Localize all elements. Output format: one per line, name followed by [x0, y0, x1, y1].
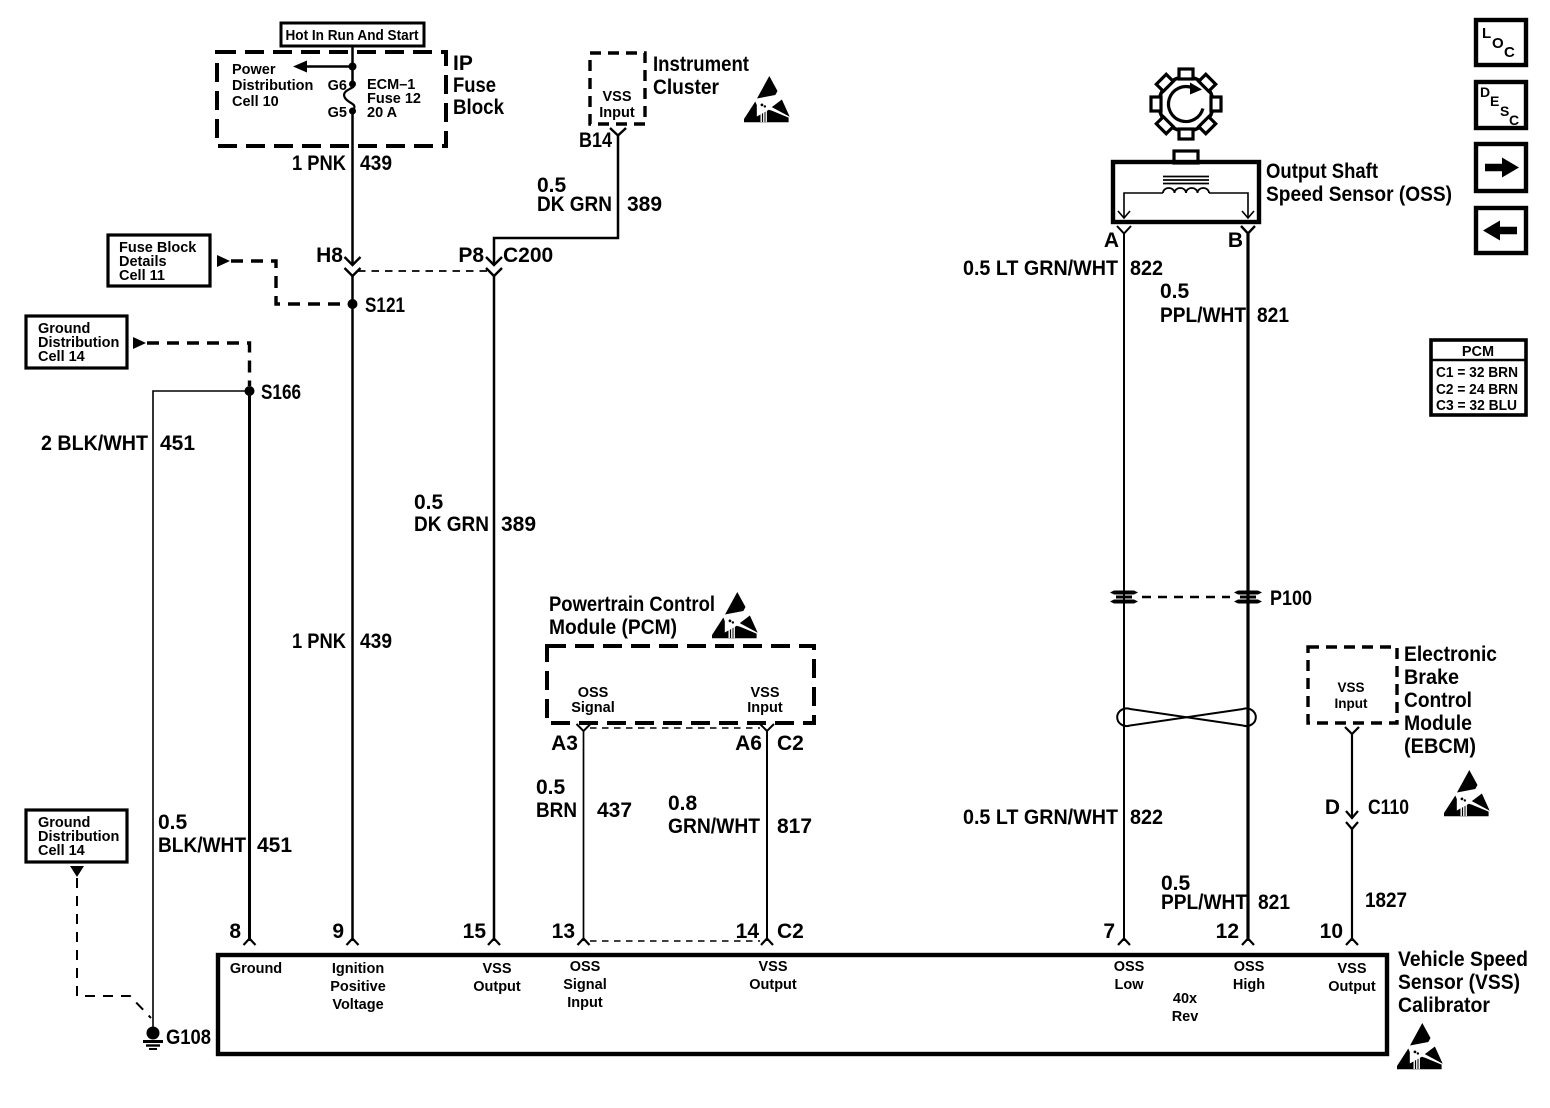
svg-text:439: 439	[360, 152, 392, 175]
ESD symbol EBCM	[1444, 770, 1490, 816]
wire: arrow to power distribution	[293, 61, 353, 73]
wire 0.5 BLK/WHT 451 to pin 8	[248, 391, 251, 941]
svg-text:15: 15	[463, 920, 487, 943]
svg-text:Module: Module	[1404, 712, 1472, 735]
svg-text:0.5: 0.5	[414, 491, 444, 514]
label 0.5 DK GRN 389 upper	[537, 174, 662, 216]
svg-text:Input: Input	[747, 700, 783, 716]
svg-text:A: A	[1104, 229, 1119, 252]
svg-text:Power: Power	[232, 62, 276, 78]
svg-text:C200: C200	[503, 244, 553, 267]
svg-text:H8: H8	[316, 244, 343, 267]
svg-text:817: 817	[777, 815, 812, 838]
wire 0.5 LT GRN/WHT 822	[1123, 234, 1125, 942]
svg-text:Distribution: Distribution	[232, 78, 313, 94]
svg-text:P100: P100	[1270, 587, 1312, 610]
dashed P100 line	[1142, 596, 1230, 599]
label 2 BLK/WHT 451	[41, 432, 195, 455]
svg-text:PPL/WHT: PPL/WHT	[1160, 304, 1246, 327]
label 0.5 BRN 437	[536, 776, 632, 822]
svg-text:VSS: VSS	[1337, 680, 1364, 695]
svg-text:C2 = 24 BRN: C2 = 24 BRN	[1436, 382, 1518, 398]
svg-text:G108: G108	[166, 1026, 211, 1049]
svg-text:821: 821	[1257, 304, 1289, 327]
pin 14 C2	[736, 920, 804, 945]
svg-text:Fuse: Fuse	[453, 74, 496, 97]
label LT GRN/WHT 822 lower	[963, 806, 1163, 829]
fork below EBCM	[1345, 727, 1359, 734]
svg-text:13: 13	[552, 920, 575, 943]
label 0.8 GRN/WHT 817	[668, 792, 812, 838]
Vehicle Speed Sensor label	[1398, 948, 1528, 1017]
svg-text:OSS: OSS	[578, 685, 609, 701]
svg-text:E: E	[1490, 93, 1499, 109]
svg-text:Speed Sensor (OSS): Speed Sensor (OSS)	[1266, 183, 1452, 206]
label PPL/WHT 821 upper	[1160, 280, 1289, 327]
svg-text:C3 = 32 BLU: C3 = 32 BLU	[1436, 398, 1517, 414]
svg-text:822: 822	[1130, 806, 1163, 829]
svg-text:439: 439	[360, 630, 392, 653]
svg-text:12: 12	[1216, 920, 1239, 943]
svg-text:O: O	[1492, 35, 1504, 52]
dashed path to S121	[231, 261, 345, 304]
wire 0.5 PPL/WHT 821	[1246, 234, 1249, 942]
svg-text:C2: C2	[777, 732, 804, 755]
svg-text:VSS: VSS	[1337, 961, 1366, 977]
svg-text:(EBCM): (EBCM)	[1404, 735, 1476, 758]
EBCM label	[1404, 643, 1497, 758]
svg-text:OSS: OSS	[1234, 959, 1265, 975]
svg-text:VSS: VSS	[758, 959, 787, 975]
pin 12	[1216, 920, 1254, 945]
svg-text:DK GRN: DK GRN	[414, 513, 489, 536]
svg-text:Electronic: Electronic	[1404, 643, 1497, 666]
label PPL/WHT 821 lower	[1161, 872, 1290, 914]
EBCM dashed box	[1308, 647, 1397, 723]
svg-text:7: 7	[1103, 920, 1115, 943]
svg-text:OSS: OSS	[570, 959, 601, 975]
svg-text:Rev: Rev	[1172, 1009, 1199, 1025]
wire 1827	[1351, 829, 1353, 941]
ESD symbol PCM	[712, 592, 758, 638]
PCM dashed box	[547, 646, 814, 723]
svg-text:Cell 14: Cell 14	[38, 843, 85, 859]
svg-text:1 PNK: 1 PNK	[292, 152, 346, 175]
splice S121	[348, 294, 406, 317]
svg-text:A3: A3	[551, 732, 578, 755]
label 0.5 BLK/WHT 451	[158, 811, 292, 857]
pin 7	[1103, 920, 1130, 945]
svg-text:Calibrator: Calibrator	[1398, 994, 1490, 1017]
svg-text:Signal: Signal	[571, 700, 615, 716]
Hot In Run And Start label box	[281, 23, 424, 46]
svg-text:Vehicle Speed: Vehicle Speed	[1398, 948, 1528, 971]
back arrow button	[1476, 208, 1526, 253]
svg-text:L: L	[1482, 25, 1491, 42]
arrow from fuse details	[217, 255, 230, 267]
svg-text:C: C	[1504, 44, 1515, 61]
svg-text:G5: G5	[328, 105, 347, 121]
svg-text:0.5: 0.5	[158, 811, 188, 834]
svg-text:Powertrain Control: Powertrain Control	[549, 593, 715, 616]
svg-text:Cell 10: Cell 10	[232, 94, 279, 110]
DESC button	[1476, 82, 1526, 128]
connector B14 fork	[579, 128, 626, 152]
gear icon	[1151, 69, 1221, 139]
wire 0.5 DK GRN 389 from cluster	[494, 136, 618, 266]
svg-text:Cell 14: Cell 14	[38, 349, 85, 365]
svg-text:Module (PCM): Module (PCM)	[549, 616, 677, 639]
fuse ECM-1 element	[344, 84, 354, 111]
svg-text:9: 9	[332, 920, 344, 943]
IP Fuse Block label	[453, 52, 504, 119]
label 1 PNK 439 lower	[292, 630, 392, 653]
svg-text:Ignition: Ignition	[332, 961, 384, 977]
Instrument Cluster label	[653, 53, 749, 99]
twisted pair symbol	[1117, 708, 1256, 726]
svg-text:389: 389	[627, 193, 662, 216]
ground G108	[143, 1026, 211, 1049]
svg-text:8: 8	[229, 920, 241, 943]
wire 0.5 BRN 437	[583, 731, 585, 941]
IP Fuse Block dashed box	[217, 52, 446, 146]
svg-text:389: 389	[501, 513, 536, 536]
thin dashed connector line above calibrator	[590, 940, 760, 942]
pin 8	[229, 920, 255, 945]
LOC button	[1476, 20, 1526, 65]
svg-text:20 A: 20 A	[367, 105, 398, 121]
svg-text:2 BLK/WHT: 2 BLK/WHT	[41, 432, 148, 455]
svg-text:VSS: VSS	[750, 685, 779, 701]
pin 9	[332, 920, 358, 945]
fuse G6 terminal	[349, 81, 356, 88]
svg-text:Signal: Signal	[563, 977, 607, 993]
svg-text:G6: G6	[328, 78, 347, 94]
svg-text:822: 822	[1130, 257, 1163, 280]
svg-text:Voltage: Voltage	[332, 997, 383, 1013]
Output Shaft Speed Sensor label	[1266, 160, 1452, 206]
svg-text:S: S	[1500, 103, 1509, 119]
svg-text:BRN: BRN	[536, 799, 577, 822]
svg-text:0.5 LT GRN/WHT: 0.5 LT GRN/WHT	[963, 257, 1118, 280]
svg-text:Output: Output	[749, 977, 797, 993]
svg-text:VSS: VSS	[482, 961, 511, 977]
svg-text:437: 437	[597, 799, 632, 822]
arrow from ground distribution	[133, 337, 146, 349]
pin 15	[463, 920, 500, 945]
OSS sensor box	[1113, 151, 1259, 222]
fuse G5 terminal	[349, 108, 356, 115]
svg-text:1827: 1827	[1365, 889, 1407, 912]
svg-text:Block: Block	[453, 96, 504, 119]
svg-text:Input: Input	[567, 995, 603, 1011]
svg-text:Hot In Run And Start: Hot In Run And Start	[286, 28, 419, 44]
svg-text:0.5: 0.5	[1160, 280, 1190, 303]
svg-text:C: C	[1509, 112, 1519, 128]
wire to C110	[1351, 734, 1353, 818]
svg-text:D: D	[1325, 796, 1340, 819]
svg-text:OSS: OSS	[1114, 959, 1145, 975]
svg-text:10: 10	[1320, 920, 1343, 943]
svg-text:IP: IP	[453, 52, 473, 75]
arrow below box	[70, 866, 84, 877]
svg-text:14: 14	[736, 920, 760, 943]
svg-text:Brake: Brake	[1404, 666, 1459, 689]
connector P8 / C200	[458, 244, 553, 276]
svg-text:40x: 40x	[1173, 991, 1197, 1007]
splice S166	[245, 381, 302, 404]
connector A6 C2 fork	[735, 724, 804, 755]
wire 2 BLK/WHT 451 branch to G108	[153, 391, 250, 1027]
svg-text:P8: P8	[458, 244, 484, 267]
svg-text:0.8: 0.8	[668, 792, 698, 815]
svg-text:0.5: 0.5	[536, 776, 566, 799]
svg-text:451: 451	[257, 834, 292, 857]
svg-text:Output Shaft: Output Shaft	[1266, 160, 1378, 183]
svg-text:C1 = 32 BRN: C1 = 32 BRN	[1436, 365, 1518, 381]
connector P100 right	[1234, 591, 1262, 604]
wire 1 PNK 439 lower segment	[351, 276, 354, 941]
dashed connector line C200	[358, 270, 488, 272]
svg-text:Output: Output	[1328, 979, 1376, 995]
svg-text:821: 821	[1258, 891, 1290, 914]
svg-text:GRN/WHT: GRN/WHT	[668, 815, 760, 838]
svg-text:D: D	[1480, 84, 1490, 100]
svg-text:Low: Low	[1115, 977, 1145, 993]
svg-text:B14: B14	[579, 129, 612, 152]
connector H8 (C200)	[316, 244, 360, 276]
svg-text:C2: C2	[777, 920, 804, 943]
svg-text:Positive: Positive	[330, 979, 386, 995]
svg-text:B: B	[1228, 229, 1243, 252]
svg-text:PCM: PCM	[1462, 344, 1494, 360]
svg-text:0.5 LT GRN/WHT: 0.5 LT GRN/WHT	[963, 806, 1118, 829]
label 1 PNK 439	[292, 152, 392, 175]
wire from Hot feed into fuse	[351, 46, 354, 84]
ESD symbol instrument cluster	[744, 76, 790, 122]
label LT GRN/WHT 822 upper	[963, 257, 1163, 280]
svg-text:Control: Control	[1404, 689, 1472, 712]
next arrow button	[1476, 144, 1526, 191]
wire 0.5 DK GRN 389 to pin 15	[493, 276, 496, 941]
svg-text:DK GRN: DK GRN	[537, 193, 612, 216]
svg-text:Input: Input	[599, 105, 635, 121]
svg-text:Instrument: Instrument	[653, 53, 749, 76]
svg-text:S121: S121	[365, 294, 405, 317]
svg-text:Input: Input	[1335, 696, 1368, 711]
ESD symbol calibrator	[1397, 1023, 1443, 1069]
wire 0.8 GRN/WHT 817	[766, 731, 768, 941]
connector A3 fork	[551, 724, 590, 755]
svg-text:C110: C110	[1368, 796, 1409, 819]
svg-text:Ground: Ground	[230, 961, 282, 977]
svg-text:S166: S166	[261, 381, 301, 404]
pin 10	[1320, 920, 1358, 945]
connector P100 left	[1110, 591, 1138, 604]
label 0.5 DK GRN 389 lower	[414, 491, 536, 536]
connector B fork	[1228, 226, 1255, 252]
connector A fork	[1104, 226, 1131, 252]
svg-text:1 PNK: 1 PNK	[292, 630, 346, 653]
svg-text:Sensor (VSS): Sensor (VSS)	[1398, 971, 1520, 994]
svg-text:Output: Output	[473, 979, 521, 995]
node: junction dot on feed	[349, 63, 357, 71]
svg-text:BLK/WHT: BLK/WHT	[158, 834, 246, 857]
dashed path to S166	[147, 343, 250, 386]
svg-text:Cell 11: Cell 11	[119, 268, 165, 284]
dashed path to G108	[77, 878, 151, 1018]
svg-text:PPL/WHT: PPL/WHT	[1161, 891, 1247, 914]
Powertrain Control Module label	[549, 593, 715, 639]
svg-text:A6: A6	[735, 732, 762, 755]
Instrument Cluster dashed box	[590, 53, 645, 124]
svg-text:High: High	[1233, 977, 1265, 993]
svg-text:451: 451	[160, 432, 195, 455]
pin 13	[552, 920, 590, 945]
svg-text:VSS: VSS	[602, 89, 631, 105]
connector D / C110	[1325, 796, 1409, 829]
svg-text:Cluster: Cluster	[653, 76, 719, 99]
wire 1 PNK 439 upper segment	[351, 111, 354, 265]
thin dashed connector line below PCM	[590, 727, 760, 729]
